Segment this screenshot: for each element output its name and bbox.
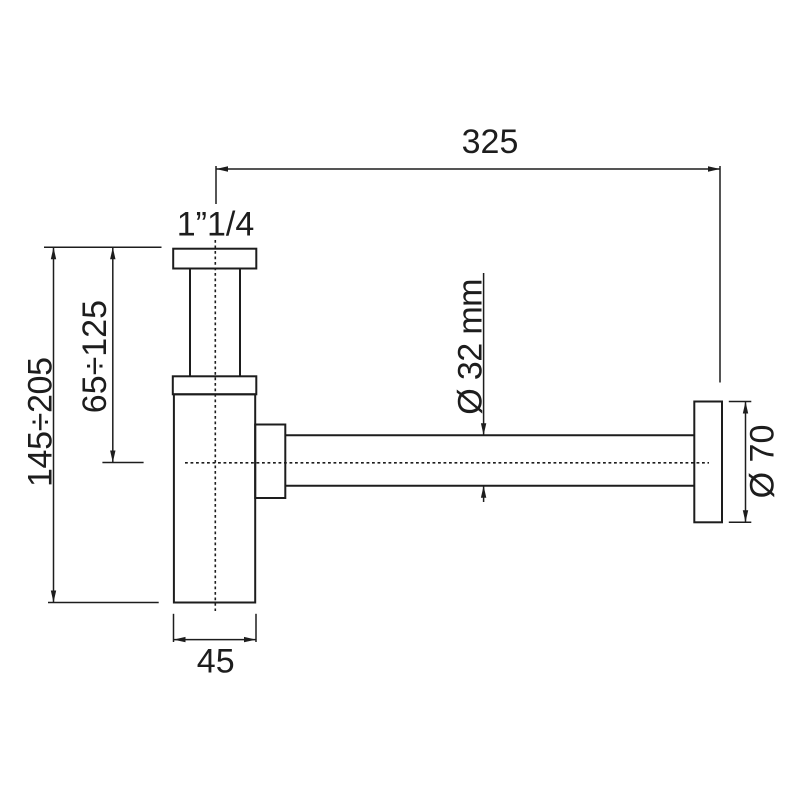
inlet pipe wall right [239, 269, 241, 377]
arrow d32 up [481, 486, 486, 498]
arrow 325 right [708, 166, 720, 171]
arrow 45 left [174, 637, 186, 642]
svg-text:45: 45 [197, 642, 235, 680]
dim 145-205 line [53, 247, 55, 602]
inlet pipe wall left [189, 269, 191, 377]
left dims top tick [44, 246, 162, 248]
dim 145-205 bottom tick [48, 602, 159, 604]
dim 325 right extension [719, 166, 721, 383]
outlet connector [255, 425, 285, 499]
dim d32 lower leader [483, 486, 485, 502]
dim 45 left extension [173, 614, 175, 642]
dim 65-125 line [112, 247, 114, 462]
svg-text:1”1/4: 1”1/4 [177, 205, 255, 243]
dim d70 line [745, 402, 747, 523]
svg-text:65÷125: 65÷125 [76, 300, 114, 413]
arrow 145-205 bottom [51, 591, 56, 603]
dim d70 top tick [729, 401, 752, 403]
horizontal pipe bottom wall [285, 485, 694, 487]
svg-text:325: 325 [462, 123, 519, 161]
dim 65-125 bottom tick [102, 462, 143, 464]
vertical centerline [214, 240, 216, 611]
arrow 45 right [244, 637, 256, 642]
inlet top flange [173, 249, 256, 269]
arrow d32 down [481, 423, 486, 435]
arrow 65-125 bottom [110, 451, 115, 463]
dim 325 left extension [215, 166, 217, 204]
wall flange [694, 402, 722, 523]
arrow d70 top [743, 402, 748, 414]
arrow 145-205 top [51, 247, 56, 259]
dim d32 upper leader [483, 273, 485, 435]
arrow d70 bottom [743, 510, 748, 522]
horizontal centerline [185, 462, 709, 464]
svg-text:Ø 32 mm: Ø 32 mm [452, 279, 490, 415]
arrow 325 left [216, 166, 228, 171]
arrow 65-125 top [110, 247, 115, 259]
svg-text:Ø 70: Ø 70 [744, 425, 782, 499]
svg-text:145÷205: 145÷205 [22, 357, 60, 487]
body collar [173, 376, 256, 394]
trap body [174, 394, 255, 602]
dim 45 line [174, 639, 257, 641]
dim d70 bottom tick [729, 521, 752, 523]
dim 325 line [216, 168, 720, 170]
dim 45 right extension [255, 614, 257, 642]
horizontal pipe top wall [285, 434, 694, 436]
